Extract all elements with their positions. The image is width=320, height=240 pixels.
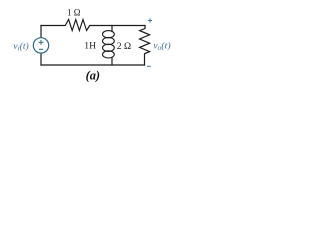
svg-text:1 Ω: 1 Ω: [67, 8, 81, 18]
svg-text:1H: 1H: [84, 40, 96, 51]
svg-text:(a): (a): [86, 69, 100, 83]
svg-text:vo(t): vo(t): [153, 40, 170, 52]
svg-text:vi(t): vi(t): [13, 41, 28, 53]
svg-text:2 Ω: 2 Ω: [117, 41, 131, 52]
